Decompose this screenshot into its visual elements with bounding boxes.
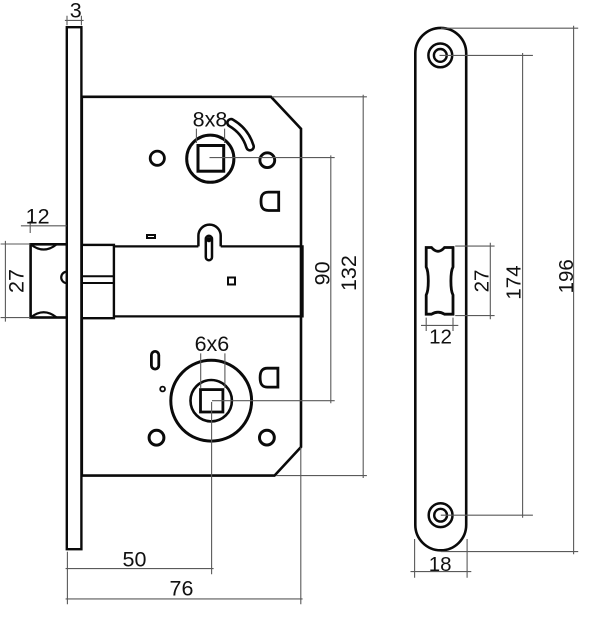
latch bolt front box <box>31 244 67 317</box>
svg-text:12: 12 <box>26 204 50 228</box>
svg-text:90: 90 <box>310 261 334 285</box>
upper hub circle <box>187 135 234 182</box>
svg-text:132: 132 <box>337 255 361 291</box>
keyhole dot <box>206 237 211 242</box>
svg-text:27: 27 <box>5 269 29 293</box>
dim 27 right lines <box>455 243 494 319</box>
lower small circle right <box>260 430 275 445</box>
svg-text:196: 196 <box>555 259 578 293</box>
bottom screw hole outer <box>429 503 453 527</box>
svg-text:50: 50 <box>123 547 147 571</box>
latch pin notch half-circle <box>61 272 67 284</box>
latch groove lines <box>83 276 114 283</box>
dim 90 lines <box>210 155 335 403</box>
tiny circle <box>160 387 165 392</box>
small square hole below band <box>228 278 235 285</box>
latch bevel arc bottom <box>31 312 57 317</box>
faceplate strip (edge view) <box>67 27 82 549</box>
keyhole capsule slot <box>206 236 212 260</box>
top screw hole inner <box>434 49 447 62</box>
faceplate latch cutout with latch <box>426 248 453 315</box>
upper square hole 8x8 <box>198 146 224 172</box>
dim 18 lines <box>411 539 472 578</box>
lower rosette circle <box>171 360 252 441</box>
dim 6x6 ext lines <box>201 353 225 388</box>
bottom screw hole inner <box>434 509 447 522</box>
svg-text:12: 12 <box>429 325 452 348</box>
svg-text:8x8: 8x8 <box>193 108 228 132</box>
small rect hole left of arch <box>147 235 155 238</box>
lower D-shaped hole <box>260 368 278 387</box>
upper small circle right <box>260 153 275 168</box>
svg-text:27: 27 <box>470 270 493 293</box>
top screw hole outer <box>428 44 452 68</box>
dim 27 left lines <box>1 241 31 322</box>
upper D-shaped hole <box>261 192 279 210</box>
dim 3 lines <box>65 16 84 25</box>
dim 12 left lines <box>21 221 67 233</box>
svg-text:6x6: 6x6 <box>195 332 230 356</box>
lower hub circle <box>191 380 232 421</box>
upper small circle left <box>150 151 164 165</box>
lower small circle left <box>149 430 164 445</box>
latch tail box (behind faceplate) <box>82 245 114 318</box>
latch band (horizontal middle section) <box>82 246 303 316</box>
dim 174 lines <box>440 53 533 518</box>
dim 196 lines <box>441 26 578 555</box>
latch bevel arc top <box>31 244 57 249</box>
curved slot arc <box>231 123 250 147</box>
svg-text:3: 3 <box>70 0 82 22</box>
svg-text:76: 76 <box>170 577 194 601</box>
dim 12 right lines <box>421 318 458 331</box>
svg-text:18: 18 <box>429 553 452 576</box>
faceplate front view stadium <box>415 28 466 550</box>
keyhole arch on band top <box>198 225 220 247</box>
dim 132 lines <box>272 95 367 478</box>
dim 76 lines <box>66 448 303 605</box>
dim 8x8 ext lines <box>196 129 224 143</box>
svg-text:174: 174 <box>503 265 526 299</box>
dim 50 lines <box>66 402 214 604</box>
lower square hole 6x6 <box>201 390 223 412</box>
lower capsule slot <box>151 351 158 369</box>
lock body outline <box>82 97 301 476</box>
